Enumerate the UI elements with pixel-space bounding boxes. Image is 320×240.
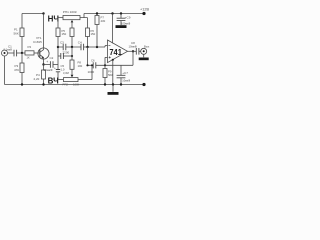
resistor R2 — [22, 45, 40, 59]
transistor VT1 C1815 — [33, 36, 49, 59]
svg-text:Вых: Вых — [144, 44, 150, 48]
resistor R9 56K — [103, 64, 113, 84]
node rail R3 — [21, 83, 23, 85]
capacitor C6 1000 — [88, 59, 96, 74]
wire emitter down — [43, 59, 45, 65]
svg-text:1,0: 1,0 — [61, 67, 65, 71]
svg-text:10мкФ: 10мкФ — [44, 68, 54, 72]
wire bus to treble tap — [71, 47, 73, 56]
node bus R6 — [71, 46, 73, 48]
svg-text:С1815: С1815 — [33, 40, 42, 44]
input jack XS1 — [2, 50, 15, 56]
node rail R9 — [104, 83, 106, 85]
svg-text:+С7: +С7 — [122, 71, 128, 75]
wire op-amp output — [128, 50, 137, 52]
svg-text:1000: 1000 — [88, 70, 95, 74]
node ground terminal — [142, 83, 145, 86]
resistor R8 43K — [95, 14, 106, 48]
svg-text:741: 741 — [109, 48, 122, 57]
potentiometer RP1 bass 100K — [58, 10, 88, 28]
capacitor C7 bias — [117, 65, 131, 84]
svg-text:С4: С4 — [78, 41, 82, 45]
wire ground rail — [5, 84, 145, 86]
node rail R8 — [96, 12, 98, 14]
wire feedback bus — [88, 47, 134, 65]
svg-text:43К: 43К — [101, 19, 106, 23]
node bass bus left — [57, 46, 59, 48]
svg-text:С2: С2 — [50, 56, 54, 60]
node output junction — [132, 50, 134, 52]
svg-text:2,2К: 2,2К — [34, 77, 40, 81]
node +12V terminal — [142, 12, 145, 15]
capacitor C4 — [78, 41, 84, 51]
node base divider junction — [21, 52, 23, 54]
output jack XS2 — [141, 44, 150, 54]
svg-text:2200: 2200 — [63, 51, 70, 55]
node feedback left — [86, 64, 88, 66]
ground output jack — [139, 54, 149, 60]
svg-text:100мкФ: 100мкФ — [121, 21, 130, 25]
svg-text:1К: 1К — [27, 56, 30, 60]
capacitor C8 electrolytic 1.0 — [54, 64, 65, 80]
resistor R6 bass mid — [70, 28, 74, 47]
svg-text:10К: 10К — [78, 64, 83, 68]
wire +12V rail right — [84, 13, 144, 15]
capacitor C3 — [60, 41, 66, 51]
capacitor C5 2200 — [58, 51, 72, 59]
svg-text:15К: 15К — [62, 32, 67, 36]
ground C9 — [116, 25, 127, 28]
wire input ground — [4, 56, 6, 85]
svg-text:Р2: Р2 — [28, 45, 32, 49]
svg-text:+: + — [54, 66, 56, 70]
node emitter junction — [42, 63, 44, 65]
resistor R3 — [14, 53, 24, 85]
svg-text:+12В: +12В — [140, 8, 149, 12]
wire V+ supply drop — [112, 14, 114, 44]
node bus R8 — [96, 46, 98, 48]
node treble tap — [71, 55, 73, 57]
svg-text:56К: 56К — [14, 31, 19, 35]
node rail R4 — [42, 83, 44, 85]
svg-text:+С9: +С9 — [125, 15, 131, 19]
node rail C7 — [120, 83, 122, 85]
node treble to feedback — [91, 64, 93, 66]
wire collector to rail — [43, 14, 45, 49]
wire bass left column riser — [57, 47, 59, 65]
node rail C9 — [120, 12, 122, 14]
node bus R7 — [86, 46, 88, 48]
op-amp DA1 741 — [105, 40, 128, 63]
capacitor C1 — [4, 44, 23, 56]
node collector junction — [42, 12, 44, 14]
node rail V+ — [111, 12, 113, 14]
capacitor C10 output — [129, 41, 141, 55]
wire bass bus — [58, 46, 105, 48]
svg-text:С3: С3 — [60, 41, 64, 45]
ground main — [108, 85, 119, 95]
svg-text:10мкФ: 10мкФ — [122, 79, 130, 83]
svg-text:+: + — [46, 60, 48, 64]
resistor R4 — [34, 65, 46, 85]
resistor R7 bass right — [86, 28, 96, 47]
resistor R5 bass left — [56, 28, 67, 47]
svg-text:РП1 100К: РП1 100К — [63, 10, 77, 14]
svg-text:47К: 47К — [14, 68, 19, 72]
capacitor C9 — [117, 14, 131, 26]
svg-text:3,3М: 3,3М — [63, 71, 69, 75]
node rail ground — [112, 83, 114, 85]
node op-amp V- pin — [112, 59, 114, 61]
svg-text:15К: 15К — [91, 32, 96, 36]
wire noninverting riser — [104, 57, 106, 65]
svg-text:10мкФ: 10мкФ — [129, 45, 137, 49]
wire V- pin to ground rail — [112, 60, 114, 85]
potentiometer RP2 treble — [58, 65, 92, 86]
svg-text:0,1мкФ: 0,1мкФ — [4, 48, 13, 52]
resistor R10 treble 10K — [70, 56, 83, 75]
svg-text:56К: 56К — [108, 73, 113, 77]
wire top-left +12V rail segment — [22, 13, 44, 15]
svg-text:С6: С6 — [91, 59, 95, 63]
resistor R1 — [14, 14, 25, 54]
capacitor C2 — [44, 56, 59, 72]
wire bus to inverting input — [104, 46, 106, 47]
